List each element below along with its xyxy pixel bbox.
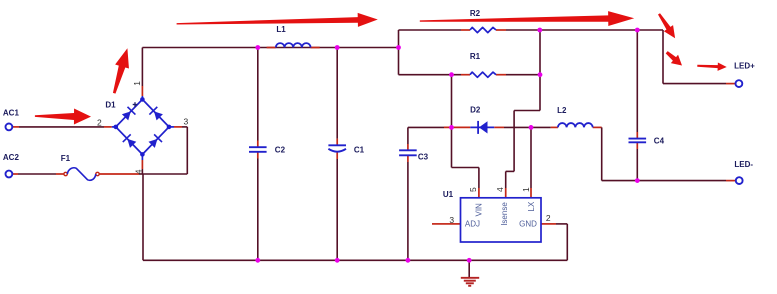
svg-text:1: 1 <box>521 187 531 192</box>
svg-text:LX: LX <box>527 201 536 211</box>
svg-text:2: 2 <box>546 213 551 223</box>
svg-text:C2: C2 <box>275 146 286 155</box>
svg-text:D2: D2 <box>470 106 481 115</box>
svg-text:3: 3 <box>184 117 189 127</box>
svg-text:C1: C1 <box>354 146 365 155</box>
svg-text:L2: L2 <box>557 106 567 115</box>
svg-text:LED-: LED- <box>734 160 753 169</box>
svg-text:AC2: AC2 <box>3 153 20 162</box>
svg-text:D1: D1 <box>105 101 116 110</box>
svg-text:LED+: LED+ <box>734 62 755 71</box>
svg-text:1: 1 <box>132 81 142 86</box>
svg-text:AC1: AC1 <box>3 109 20 118</box>
svg-text:2: 2 <box>97 118 102 128</box>
svg-text:C3: C3 <box>418 152 429 161</box>
svg-text:L1: L1 <box>276 25 286 34</box>
svg-text:ADJ: ADJ <box>465 220 480 229</box>
svg-text:3: 3 <box>449 215 454 225</box>
svg-text:F1: F1 <box>61 154 71 163</box>
svg-text:U1: U1 <box>443 190 454 199</box>
svg-text:4: 4 <box>134 169 144 174</box>
svg-text:GND: GND <box>519 220 537 229</box>
svg-text:VIN: VIN <box>475 203 484 217</box>
svg-text:4: 4 <box>495 187 505 192</box>
svg-text:R1: R1 <box>470 52 481 61</box>
svg-text:R2: R2 <box>470 9 481 18</box>
svg-text:Isense: Isense <box>500 202 509 226</box>
svg-text:5: 5 <box>468 187 478 192</box>
svg-text:C4: C4 <box>654 136 665 145</box>
